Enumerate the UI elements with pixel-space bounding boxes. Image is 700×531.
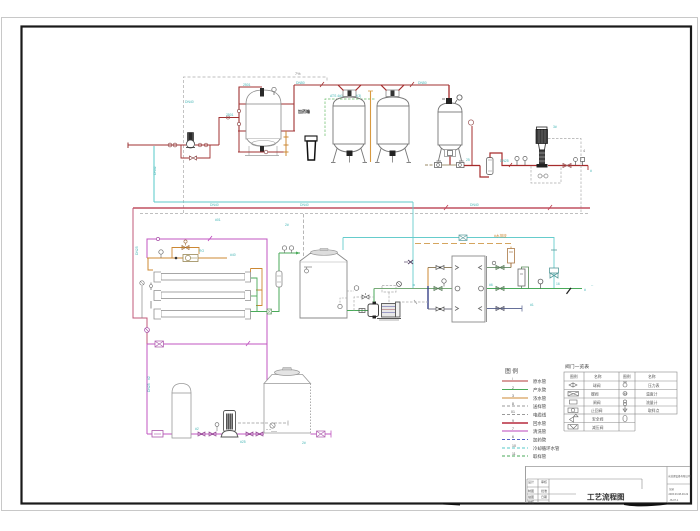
P3 gauge [397, 282, 402, 287]
svg-text:安全阀: 安全阀 [592, 417, 604, 422]
flow arrow black [566, 288, 572, 295]
svg-text:10: 10 [512, 444, 516, 448]
product rotameter loop [518, 267, 529, 289]
valves after dosing [246, 432, 253, 436]
CIP upper return line [147, 343, 267, 345]
svg-text:制图: 制图 [528, 488, 534, 493]
svg-text:7%: 7% [295, 72, 301, 76]
svg-text:#: # [584, 288, 586, 292]
tank T4 softened water [437, 103, 464, 161]
feed sensor [159, 250, 163, 254]
svg-text:减压阀: 减压阀 [592, 425, 604, 430]
flow box on bottom [152, 431, 163, 438]
bottom area labels [147, 383, 306, 445]
svg-text:加药管: 加药管 [533, 437, 547, 444]
svg-text:#水排放: #水排放 [494, 233, 507, 238]
svg-text:加药箱: 加药箱 [297, 108, 310, 114]
pure water tank [300, 249, 347, 319]
line after P2 [548, 165, 588, 167]
tick [509, 163, 512, 167]
valves after acid tank [198, 432, 205, 436]
valve table col2 names [591, 383, 604, 430]
HX out bottom dosing line [487, 308, 522, 310]
title block divider line [525, 466, 690, 468]
svg-text:M: M [624, 392, 627, 396]
title block small texts [528, 479, 547, 504]
product to tank [279, 252, 300, 254]
svg-text:浓水管: 浓水管 [533, 395, 547, 402]
crimson CIP main [133, 207, 590, 209]
svg-text:描图: 描图 [528, 494, 534, 499]
red top link to manifold [294, 84, 449, 86]
svg-text:8: 8 [412, 284, 416, 286]
T4 outlet drop [449, 157, 451, 166]
tank T1 piping frame [238, 85, 295, 131]
riser bottom valve [436, 307, 444, 311]
svg-text:产水管: 产水管 [533, 387, 547, 394]
svg-text:4: 4 [583, 149, 585, 153]
title block left vertical [525, 467, 527, 504]
pump P3 [368, 302, 401, 321]
T4 bottom outlet box [445, 150, 456, 157]
valve on discharge [434, 287, 442, 291]
tank level switch [340, 298, 347, 304]
concentrate line to rotameter [415, 244, 511, 250]
svg-text:水处理设备有限公司: 水处理设备有限公司 [668, 474, 691, 478]
acid tank [172, 384, 191, 439]
svg-text:3#: 3# [553, 125, 557, 129]
feed drop to membrane [148, 258, 153, 270]
CIP bottom line [147, 433, 264, 435]
svg-text:回水管: 回水管 [533, 420, 547, 427]
cyan drop to cooling loop [412, 202, 414, 288]
concentrate rotameter [508, 249, 515, 264]
svg-text:名称: 名称 [594, 374, 602, 379]
T1 top fitting [260, 88, 264, 97]
membrane vessel M2 [154, 291, 251, 301]
legend mid ticks [511, 377, 516, 456]
svg-text:DN50: DN50 [296, 81, 305, 85]
svg-text:冷却循环水管: 冷却循环水管 [533, 445, 560, 452]
control dashed line top [184, 77, 328, 213]
red product line [464, 165, 480, 167]
valve table grid [564, 372, 677, 431]
T4 inlet elbow [448, 85, 450, 99]
svg-text:电缆线: 电缆线 [533, 412, 547, 419]
svg-text:蝶阀: 蝶阀 [591, 392, 599, 397]
svg-text:取样管: 取样管 [533, 453, 547, 460]
CIP left down line [146, 344, 148, 434]
pump P3 suction [347, 310, 368, 312]
svg-text:DN40: DN40 [185, 100, 194, 104]
valve table col1 symbols [568, 383, 579, 429]
T1 bottom fitting [260, 146, 264, 152]
valve circle on CIP drop [145, 328, 150, 333]
pump bypass loop [172, 248, 199, 259]
bypass valve [190, 156, 197, 160]
T4 top fitting [446, 98, 452, 104]
svg-text:#01: #01 [215, 218, 221, 222]
svg-text:7: 7 [512, 427, 514, 431]
tick on boundary [208, 236, 212, 241]
T4 top gauge [457, 95, 462, 100]
svg-text:JS-07-1: JS-07-1 [670, 499, 679, 502]
svg-text:#1: #1 [530, 303, 534, 307]
T1 bottom red pipe [238, 151, 286, 153]
valve after P2 [563, 164, 571, 168]
backwash riser between T2 T3 [370, 91, 372, 162]
gauges before P2 [515, 156, 519, 160]
product riser [272, 253, 279, 312]
check valve after P1 [198, 143, 202, 147]
left interstage links [150, 283, 152, 291]
svg-text:DN25: DN25 [147, 383, 151, 392]
svg-text:2: 2 [512, 386, 514, 390]
tank level indicator [304, 266, 312, 268]
dosing control dashed [238, 422, 268, 424]
gray segment [442, 164, 458, 166]
security filter F1 [487, 158, 494, 175]
union box 1 [435, 163, 442, 168]
svg-text:设计: 设计 [528, 479, 534, 484]
svg-text:原水管: 原水管 [533, 378, 547, 385]
tank T2 [331, 97, 367, 163]
legend labels [533, 378, 560, 460]
discharge main to HX [374, 288, 452, 290]
svg-text:批准: 批准 [541, 488, 547, 493]
sample cooler [305, 136, 317, 160]
svg-text:#2: #2 [195, 427, 199, 431]
cone top tank [264, 368, 311, 434]
bypass riser orange blue [427, 268, 429, 287]
instruments on product [282, 246, 286, 250]
T2 manifold dip [338, 85, 361, 91]
svg-text:#2: #2 [147, 376, 151, 380]
cable dashed rail [140, 213, 590, 215]
pump base dashed box [531, 166, 561, 183]
cyan return drop [153, 146, 155, 202]
svg-text:25: 25 [466, 158, 470, 162]
riser to tank T1 [219, 118, 239, 146]
HX ports [455, 266, 483, 311]
cyan cooling header [343, 238, 554, 289]
line pump to riser [195, 144, 219, 146]
HX out top line [487, 267, 511, 269]
svg-text:送样管: 送样管 [533, 403, 547, 410]
flange on riser [226, 116, 229, 119]
svg-text:图例: 图例 [570, 374, 578, 379]
cone tank drain magenta [311, 433, 332, 435]
raw water main line [128, 144, 186, 146]
motor valve on cyan [550, 250, 559, 278]
svg-text:DN40: DN40 [470, 203, 479, 207]
raw water pump P1 [186, 132, 195, 148]
P3 control box [382, 286, 396, 293]
raw water inlet tick [127, 143, 129, 149]
valve on CIP return [155, 341, 164, 347]
bypass valve [182, 246, 189, 250]
gauge riser x472 [471, 126, 473, 165]
svg-text:DN25: DN25 [500, 159, 509, 163]
svg-text:止回阀: 止回阀 [591, 408, 603, 413]
valve table col4 names [646, 383, 660, 413]
cartridge on riser [276, 271, 282, 287]
right interstage orange [251, 269, 263, 291]
flow tick [320, 82, 324, 87]
svg-text:球阀: 球阀 [593, 383, 601, 388]
HP pump P2 [536, 127, 548, 168]
svg-text:记录: 记录 [669, 487, 675, 491]
membrane vessel M3 [154, 309, 251, 319]
svg-text:图例: 图例 [505, 367, 520, 375]
butterfly valve V1 [168, 143, 172, 147]
cone tank level sensor [266, 429, 271, 431]
tank T3 [375, 97, 411, 163]
svg-text:#6: #6 [489, 283, 493, 287]
title block company box texts [668, 474, 691, 502]
membrane vessel M1 [154, 272, 251, 282]
svg-text:#40: #40 [230, 253, 236, 257]
gauge on green main [538, 279, 543, 284]
end tick [587, 166, 589, 171]
svg-text:DN32: DN32 [153, 166, 157, 175]
svg-text:9: 9 [512, 419, 514, 423]
svg-text:--: -- [591, 283, 593, 287]
T1 top gauge [272, 87, 276, 91]
T1 left red drop to bottom pipe [238, 131, 240, 152]
svg-text:#25: #25 [240, 440, 246, 444]
T1 frame flanges [237, 109, 240, 112]
svg-text:2501: 2501 [243, 83, 251, 87]
junction dot [175, 257, 178, 260]
svg-text:取样点: 取样点 [648, 408, 660, 413]
svg-text:2#: 2# [302, 441, 306, 445]
svg-text:#: # [590, 169, 592, 173]
union box 2 [457, 163, 465, 168]
svg-text:2501: 2501 [226, 113, 234, 117]
riser top valve [436, 266, 444, 270]
svg-text:流量计: 流量计 [646, 400, 658, 405]
svg-text:DN50: DN50 [418, 81, 427, 85]
sensor on line [215, 423, 219, 427]
T3 bottom fitting [390, 151, 396, 157]
backwash drain orange [284, 131, 289, 156]
tank temp sensor [354, 286, 359, 291]
arrow into tank [296, 252, 300, 255]
cyan labels mid [466, 125, 592, 173]
pump control dashed [548, 139, 581, 214]
cyan return main [154, 201, 413, 203]
svg-text:2#: 2# [285, 223, 289, 227]
T2 bottom fitting [347, 151, 353, 157]
T3 manifold dip [381, 85, 404, 91]
CIP drop left [133, 208, 147, 344]
legend line samples [502, 381, 528, 456]
HP pump box [183, 255, 198, 262]
svg-text:DN40: DN40 [300, 203, 309, 207]
right side cyan labels [412, 282, 593, 307]
svg-text:11: 11 [512, 452, 516, 456]
svg-text:校核: 校核 [528, 499, 534, 504]
bypass loop below P1 [181, 145, 189, 158]
svg-text:清洗管: 清洗管 [533, 428, 547, 435]
instruments after P2 [574, 158, 578, 162]
dashed control to riser [402, 301, 428, 303]
sample line green dashed [325, 99, 376, 136]
line to pump P2 [510, 165, 537, 167]
svg-text:阀门一览表: 阀门一览表 [565, 363, 589, 370]
T2 top fitting [343, 90, 356, 97]
valve table header texts [570, 374, 656, 379]
title block grid [527, 467, 690, 504]
tank control dashed [303, 214, 305, 258]
svg-text:压力表: 压力表 [648, 383, 660, 388]
cyan valve on header [459, 235, 467, 241]
filter outlet over [490, 153, 510, 166]
cyan drop to tank dome [342, 238, 344, 251]
dosing pump unit [221, 411, 239, 438]
svg-text:2015.03.08-03.22: 2015.03.08-03.22 [669, 493, 689, 496]
rail labels [153, 166, 479, 227]
junction fitting [267, 309, 272, 314]
svg-text:工艺流程图: 工艺流程图 [587, 492, 625, 502]
gauge on discharge [442, 279, 446, 283]
svg-text:8: 8 [512, 402, 514, 406]
svg-text:16: 16 [556, 282, 560, 286]
valve table col3 symbols [623, 382, 627, 422]
P3 discharge riser [373, 289, 375, 303]
svg-text:DN25: DN25 [135, 246, 139, 255]
tiny cyan labels top [185, 81, 427, 117]
P3 recirc loop [354, 297, 374, 311]
svg-text:/: / [512, 377, 513, 381]
svg-text:日期: 日期 [541, 494, 547, 499]
product collector green [251, 278, 257, 312]
svg-text:闸阀: 闸阀 [593, 400, 601, 405]
svg-text:RO: RO [199, 249, 204, 253]
HX out mid green main [487, 288, 582, 290]
RO unit boundary magenta [147, 239, 267, 381]
svg-text:名称: 名称 [648, 374, 656, 379]
svg-text:6: 6 [512, 435, 514, 439]
RO feed line orange [147, 257, 227, 259]
filter underpass step [480, 166, 489, 178]
instrument symbol left [408, 260, 413, 264]
svg-text:审核: 审核 [541, 479, 547, 484]
T3 top fitting [386, 90, 399, 97]
svg-text:温度计: 温度计 [646, 392, 658, 397]
product line start gray [425, 164, 435, 166]
svg-text:DN40: DN40 [210, 203, 219, 207]
tank T1 multimedia filter [245, 90, 281, 156]
svg-text:01: 01 [511, 410, 515, 414]
drain stub with gauge [141, 286, 143, 318]
bottom border thick smudge [443, 503, 460, 506]
RO cyan labels [135, 246, 236, 380]
svg-text:3: 3 [512, 394, 514, 398]
svg-text:图例: 图例 [623, 374, 631, 379]
heat exchanger HX [452, 256, 487, 322]
